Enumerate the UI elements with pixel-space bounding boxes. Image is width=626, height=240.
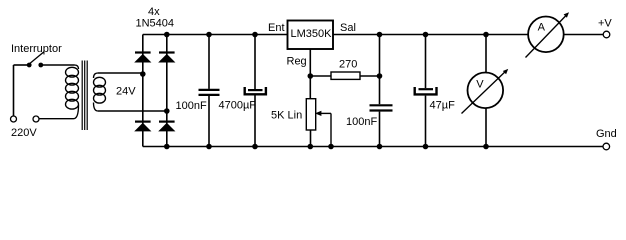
capacitor C4 47uF wire top <box>425 35 427 89</box>
diode D1 <box>134 53 151 63</box>
capacitor C2 4700uF wire top <box>254 35 256 90</box>
capacitor C4 47uF <box>415 87 437 94</box>
label 270 <box>339 59 357 71</box>
wire secondary bottom to bridge <box>98 110 167 112</box>
wire left mains vertical <box>13 65 15 116</box>
terminal 220V right <box>33 116 39 122</box>
node C4 top <box>423 32 429 38</box>
label Interruptor <box>11 43 62 55</box>
svg-text:+V: +V <box>598 18 612 30</box>
node top rail at right branch <box>164 32 170 38</box>
node wiper bottom <box>328 144 334 150</box>
wire switch left <box>14 64 28 66</box>
wire secondary top to bridge <box>98 73 143 74</box>
svg-text:Gnd: Gnd <box>596 128 617 140</box>
svg-text:100nF: 100nF <box>346 116 377 128</box>
node C4 bottom <box>423 144 429 150</box>
label Gnd <box>596 128 617 140</box>
node C2 top <box>252 32 258 38</box>
node bridge AC right <box>164 108 170 114</box>
switch S1 <box>27 52 44 68</box>
node pot bottom <box>308 144 314 150</box>
wire regulator output rail <box>333 34 528 36</box>
voltmeter M1 <box>462 69 509 114</box>
bridge right branch wire <box>166 35 168 147</box>
terminal 220V left <box>11 116 17 122</box>
wire R1 to output node <box>360 75 380 77</box>
svg-text:270: 270 <box>339 59 357 71</box>
capacitor C3 wire bottom <box>379 112 381 147</box>
svg-text:220V: 220V <box>11 127 37 139</box>
wire Reg to R1 <box>310 75 331 77</box>
label 100nF (C3) <box>346 116 377 128</box>
regulator U1 LM350K <box>288 21 334 50</box>
potentiometer P1 5K <box>306 99 331 147</box>
svg-text:Ent: Ent <box>268 22 285 34</box>
wire ammeter to +V <box>564 34 603 36</box>
wire bottom rail <box>143 146 603 148</box>
node voltmeter bottom <box>483 144 489 150</box>
transformer T1 secondary winding <box>94 73 106 111</box>
terminal Gnd <box>603 143 610 150</box>
wire top rail (bridge to regulator) <box>143 34 287 36</box>
potentiometer P1 wire bottom <box>310 130 312 147</box>
node C3 bottom <box>377 144 383 150</box>
node C2 bottom <box>252 144 258 150</box>
node output rail <box>377 32 383 38</box>
diode D4 <box>158 122 175 132</box>
voltmeter wire top <box>485 35 487 73</box>
capacitor C1 100nF <box>199 90 220 95</box>
transformer T1 core <box>82 61 87 131</box>
label +V <box>598 18 612 30</box>
svg-text:5K Lin: 5K Lin <box>271 110 302 122</box>
wire switch to transformer <box>43 64 75 66</box>
label 4700uF <box>219 100 257 112</box>
label 24V <box>116 86 136 98</box>
transformer T1 primary winding <box>39 65 78 119</box>
node voltmeter top <box>483 32 489 38</box>
capacitor C2 4700uF <box>245 87 266 94</box>
label 220V <box>11 127 37 139</box>
label 100nF (C1) <box>176 100 207 112</box>
label 47uF <box>430 100 456 112</box>
capacitor C3 100nF <box>370 105 393 110</box>
label Ent <box>268 22 285 34</box>
capacitor C2 wire bottom <box>254 96 256 147</box>
label 1N5404 <box>136 18 175 30</box>
potentiometer P1 5K wire top <box>309 76 311 99</box>
terminal +V <box>603 31 610 38</box>
wire Reg pin <box>309 49 311 76</box>
capacitor C1 wire bottom <box>208 96 210 147</box>
node C1 top <box>206 32 212 38</box>
svg-text:Interruptor: Interruptor <box>11 43 62 55</box>
node bridge AC left <box>140 71 146 77</box>
svg-text:4x: 4x <box>148 6 160 18</box>
svg-text:100nF: 100nF <box>176 100 207 112</box>
ammeter M2 <box>526 12 570 57</box>
label 4x <box>148 6 160 18</box>
label Sal <box>340 22 356 34</box>
capacitor C4 wire bottom <box>425 96 427 147</box>
wire output node vertical <box>379 35 381 105</box>
svg-text:4700µF: 4700µF <box>219 100 257 112</box>
svg-text:Sal: Sal <box>340 22 356 34</box>
svg-text:Reg: Reg <box>287 56 307 68</box>
label 5K Lin <box>271 110 302 122</box>
voltmeter wire bottom <box>485 108 487 146</box>
svg-text:1N5404: 1N5404 <box>136 18 175 30</box>
diode D2 <box>158 53 175 63</box>
node Reg <box>308 73 314 79</box>
node C1 bottom <box>206 144 212 150</box>
node R1 right <box>377 73 383 79</box>
node bottom rail at right branch <box>164 144 170 150</box>
svg-text:V: V <box>476 79 484 91</box>
svg-text:24V: 24V <box>116 86 136 98</box>
svg-text:A: A <box>538 22 546 34</box>
capacitor C1 100nF wire top <box>208 35 210 89</box>
resistor R1 270 <box>331 72 360 79</box>
svg-text:LM350K: LM350K <box>291 28 333 40</box>
svg-text:47µF: 47µF <box>430 100 456 112</box>
bridge left branch wire <box>142 35 144 147</box>
diode D3 <box>134 122 151 132</box>
label Reg <box>287 56 307 68</box>
